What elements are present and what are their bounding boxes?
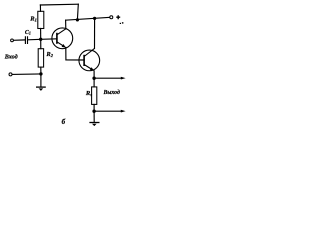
- svg-text:R1: R1: [29, 15, 37, 22]
- wire output bottom: [94, 110, 121, 112]
- terminal +Ek: [110, 16, 113, 19]
- node A junction: [39, 38, 42, 41]
- label plus Ek: [116, 15, 120, 19]
- wire VT1 emitter to VT2 base: [66, 48, 84, 61]
- transistor VT2: [79, 48, 100, 71]
- resistor R1: [38, 11, 44, 28]
- capacitor C1: [25, 36, 27, 44]
- terminal input bottom: [9, 73, 12, 76]
- ground right: [89, 123, 99, 127]
- terminal input top: [11, 39, 14, 42]
- node B junction: [39, 72, 42, 75]
- node output bottom junction: [92, 110, 95, 113]
- wire bottom node to ground: [93, 111, 95, 122]
- node junction rail drop: [76, 18, 79, 21]
- ground left: [36, 87, 46, 91]
- svg-text:б: б: [62, 118, 66, 126]
- wire VT1 collector: [65, 20, 67, 29]
- wire collector rail: [66, 17, 110, 20]
- node output top junction: [92, 77, 95, 80]
- wire node B to ground: [40, 74, 42, 87]
- resistor Re: [92, 87, 97, 105]
- wire VT2 collector: [94, 18, 96, 48]
- wire node A to VT1 base: [41, 38, 57, 41]
- svg-text:C1: C1: [25, 30, 31, 36]
- wire Re to bottom node: [93, 104, 95, 111]
- wire VT2 emitter: [93, 71, 95, 78]
- wire R2 top stem: [40, 39, 42, 48]
- wire top rail drop: [76, 4, 79, 20]
- svg-text:Rэ: Rэ: [85, 90, 92, 97]
- wire input row: [13, 39, 25, 41]
- svg-text:R2: R2: [45, 51, 53, 58]
- svg-text:Выход: Выход: [103, 89, 120, 96]
- wire emitter node to Re: [93, 78, 95, 87]
- label Ek subscript: [120, 22, 124, 24]
- wire capacitor to node A: [28, 38, 41, 41]
- arrow output bottom: [121, 110, 126, 113]
- wire top rail: [40, 3, 78, 6]
- resistor R2: [38, 49, 43, 67]
- wire R1 bottom stem: [40, 29, 42, 40]
- node junction rail VT2 collector: [93, 17, 96, 20]
- wire output top: [94, 77, 121, 79]
- wire R2 bottom stem: [40, 67, 42, 74]
- wire input bottom row: [12, 73, 41, 76]
- arrow output top: [121, 77, 126, 80]
- wire R1 top stem: [39, 5, 41, 11]
- svg-text:Вход: Вход: [4, 53, 18, 60]
- transistor VT1: [52, 28, 73, 49]
